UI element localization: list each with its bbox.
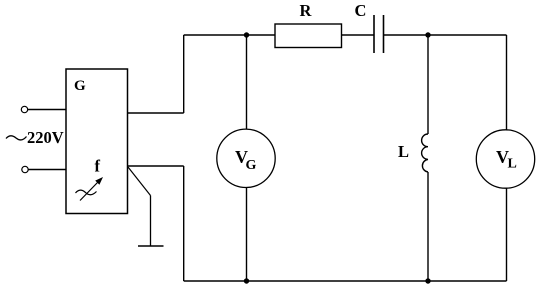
junction node top L tap — [425, 32, 430, 37]
wire resistor to capacitor — [342, 34, 375, 36]
generator box U1 — [66, 69, 128, 214]
wire upper terminal to generator — [28, 109, 66, 111]
svg-text:f: f — [95, 157, 101, 176]
wire L branch upper — [427, 35, 429, 134]
junction node top VG tap — [244, 32, 249, 37]
svg-text:G: G — [246, 158, 257, 173]
tilde of 220V label — [6, 136, 27, 140]
bottom rail — [184, 280, 507, 282]
junction node bottom VG — [244, 278, 249, 283]
wire generator upper output (horizontal) — [128, 112, 184, 114]
capacitor C plate right — [383, 15, 385, 53]
wire right rail lower — [506, 188, 508, 281]
wire right rail upper — [506, 35, 508, 130]
AC source terminal (upper) — [21, 106, 27, 112]
junction node bottom L — [425, 278, 430, 283]
wire generator lower output (horizontal) — [128, 165, 184, 167]
ground lead vertical — [150, 196, 152, 247]
wire dropper to bottom rail — [183, 166, 185, 281]
ground — [138, 245, 164, 247]
wire riser to top rail — [183, 35, 185, 113]
voltmeter VG — [217, 129, 275, 187]
wire L branch lower — [427, 172, 429, 281]
ground wire diagonal — [128, 167, 151, 196]
wire top rail left segment — [184, 34, 275, 36]
svg-text:G: G — [74, 78, 86, 94]
svg-text:C: C — [355, 1, 367, 20]
svg-text:L: L — [508, 157, 517, 172]
svg-text:R: R — [300, 1, 313, 20]
frequency adjust sine — [76, 190, 97, 195]
inductor L — [422, 134, 428, 172]
frequency adjust arrow — [80, 183, 98, 201]
svg-text:L: L — [398, 142, 409, 161]
wire lower terminal to generator — [28, 169, 66, 171]
svg-text:220V: 220V — [27, 128, 64, 147]
wire VG branch upper — [246, 35, 248, 129]
AC source terminal (lower) — [22, 166, 28, 172]
wire VG branch lower — [246, 188, 248, 282]
voltmeter VL — [476, 130, 534, 188]
resistor R — [275, 24, 342, 48]
wire capacitor to right rail — [384, 34, 507, 36]
capacitor C plate left — [373, 15, 375, 53]
